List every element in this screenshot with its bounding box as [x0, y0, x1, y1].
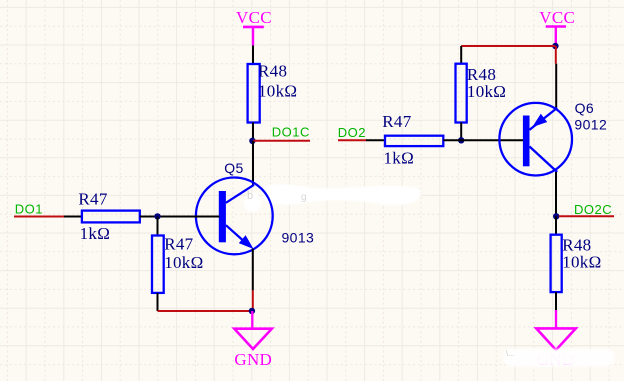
- wire DO1 to R47: [64, 216, 82, 218]
- wire Q5 emitter down (black): [252, 249, 254, 291]
- wire left branch down: [460, 46, 462, 64]
- svg-text:DO2: DO2: [338, 125, 366, 140]
- svg-text:DO2C: DO2C: [574, 202, 612, 217]
- wire DO2 to R47: [366, 139, 385, 141]
- svg-text:Q5: Q5: [224, 160, 243, 176]
- wire node to Q5 collector: [252, 141, 254, 185]
- svg-text:b: b: [247, 190, 253, 202]
- resistor R47 (left series 1k): [78, 190, 139, 243]
- transistor Q5 (NPN 9013): [196, 178, 273, 255]
- junction base node right: [458, 137, 464, 143]
- net stub DO1C (red): [253, 140, 310, 142]
- svg-text:VCC: VCC: [236, 8, 272, 27]
- net stub DO1 (red): [14, 216, 64, 218]
- svg-text:g: g: [301, 192, 307, 203]
- wire Q6 collector down: [555, 172, 557, 216]
- wire R47 bottom down: [157, 293, 159, 311]
- power VCC (left): [236, 8, 272, 46]
- resistor R47 (right series 1k): [382, 112, 443, 168]
- ground GND (right): [536, 310, 576, 369]
- svg-text:R47: R47: [78, 190, 107, 209]
- transistor Q6 (PNP 9012): [499, 103, 572, 176]
- wire base node down: [157, 217, 159, 236]
- svg-text:R47: R47: [382, 112, 411, 131]
- svg-text:9013: 9013: [282, 230, 315, 246]
- wire R47 to Q5 base: [140, 216, 220, 218]
- resistor R48 (right pulldown): [551, 235, 602, 292]
- wire R48 down: [555, 292, 557, 310]
- white erase smudge bottom right: [503, 349, 615, 367]
- svg-text:1kΩ: 1kΩ: [80, 224, 111, 243]
- wire R47 to Q6 base: [443, 139, 523, 141]
- wire down to Q6 emitter: [555, 64, 557, 108]
- svg-text:\...: \...: [506, 349, 514, 358]
- svg-text:DO1: DO1: [15, 202, 43, 217]
- power VCC (right): [539, 8, 575, 45]
- wire R48 to node DO1C: [252, 123, 254, 142]
- net stub DO2 (red): [338, 139, 366, 141]
- junction ground node: [249, 308, 255, 314]
- red wire VCC node down: [555, 46, 557, 64]
- svg-text:GND: GND: [234, 350, 272, 369]
- svg-text:9012: 9012: [574, 116, 607, 132]
- svg-text:DO1C: DO1C: [272, 124, 310, 139]
- svg-text:10kΩ: 10kΩ: [467, 82, 506, 101]
- red wire bottom to ground node: [158, 310, 253, 312]
- wire R48 to base node: [460, 123, 462, 141]
- svg-text:10kΩ: 10kΩ: [562, 253, 601, 272]
- svg-text:1kΩ: 1kΩ: [384, 149, 415, 168]
- svg-text:Q6: Q6: [575, 100, 594, 116]
- wire emitter to ground node (red): [252, 290, 254, 311]
- wire VCC to R48: [252, 46, 254, 65]
- net stub DO2C (red): [559, 215, 614, 217]
- svg-text:R48: R48: [258, 61, 287, 80]
- junction base node: [154, 213, 160, 219]
- svg-text:10kΩ: 10kΩ: [164, 253, 203, 272]
- junction DO2C node: [553, 213, 559, 219]
- junction at DO1C: [249, 138, 255, 144]
- white erase smudge mid: [244, 184, 421, 212]
- resistor R47 (left pulldown 10k): [152, 234, 204, 293]
- svg-text:R47: R47: [164, 234, 193, 253]
- svg-text:10kΩ: 10kΩ: [258, 82, 297, 101]
- resistor R48 (left top): [248, 61, 298, 122]
- ground GND (left): [234, 311, 272, 369]
- red wire VCC node left: [461, 45, 555, 47]
- wire node to R48: [555, 216, 557, 234]
- junction VCC node: [552, 43, 558, 49]
- resistor R48 (right top): [456, 64, 507, 123]
- svg-text:VCC: VCC: [539, 8, 575, 27]
